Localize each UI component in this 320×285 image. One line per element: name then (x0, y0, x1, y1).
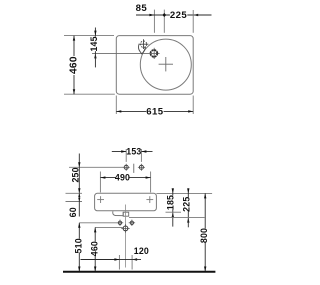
svg-text:85: 85 (136, 3, 148, 14)
svg-text:225: 225 (181, 197, 191, 212)
elevation: body top extension line (left) (66, 192, 83, 194)
plan view: bottom edge extension line (left) (64, 93, 115, 95)
svg-text:120: 120 (134, 246, 149, 256)
elevation: top surface reference line (right, long) (156, 192, 212, 194)
dimension 490 (elevation, between mounting crosses) (100, 172, 150, 193)
elevation: 460 top reference line (95, 226, 123, 228)
plan view: tap hole bold ring (151, 50, 158, 57)
dimension 460 (elevation bottom) (90, 227, 100, 271)
elevation: drain hole symbol (121, 224, 129, 232)
elevation: lower fixing hole right (129, 220, 135, 226)
dimension 185 (elevation right) (166, 188, 176, 226)
svg-text:225: 225 (170, 10, 187, 21)
plan view: basin bowl circle (140, 39, 191, 90)
elevation: 60 reference line (66, 201, 83, 203)
dimension 615 (plan bottom) (116, 96, 193, 118)
svg-text:185: 185 (166, 195, 176, 210)
plan view: tap hole centre line (145 reference) (92, 52, 160, 54)
svg-text:145: 145 (89, 36, 99, 51)
svg-text:615: 615 (146, 106, 163, 117)
elevation: 185 bottom reference line (166, 211, 182, 213)
elevation: washbasin body (95, 193, 157, 211)
svg-text:60: 60 (68, 207, 78, 217)
dimension 250 (elevation left) (70, 154, 80, 194)
plan view: basin center crosshair (159, 57, 173, 71)
elevation: lower fixing hole left (117, 220, 123, 226)
plan view: right edge extension line (top) (192, 10, 194, 33)
dimension 153 (elevation top) (112, 147, 153, 162)
plan view: top edge extension line (left) (64, 35, 114, 37)
svg-text:490: 490 (115, 173, 130, 183)
plan view: faucet symbol dashed circle with cross (138, 39, 148, 49)
svg-text:153: 153 (126, 147, 141, 157)
dimension 225 (plan top) (154, 10, 211, 33)
svg-text:460: 460 (69, 56, 80, 74)
plan view: faucet spout outline (139, 45, 146, 54)
elevation: left mounting cross (97, 196, 104, 203)
svg-text:800: 800 (199, 228, 209, 243)
dimension 120 (elevation bottom centre) (81, 246, 150, 269)
dimension 85 (plan top) (136, 3, 155, 33)
elevation: drain axis line (125, 205, 127, 268)
elevation: tap hole right (153 pair) (138, 164, 145, 171)
elevation: right mounting cross (146, 196, 153, 203)
dimension 60 (elevation left) (68, 193, 80, 217)
elevation: drain box (123, 212, 129, 216)
dimension 460 (plan left) (69, 36, 80, 95)
plan view: washbasin outline (116, 36, 193, 95)
dimension 225 (elevation right) (181, 188, 191, 227)
elevation: 510 top reference line (79, 222, 117, 224)
dimension 510 (elevation bottom left) (74, 223, 84, 272)
elevation: tap hole left (153 pair) (123, 164, 130, 171)
elevation: floor line (63, 271, 215, 273)
svg-text:510: 510 (74, 238, 84, 253)
elevation: 225 bottom reference line (129, 217, 205, 219)
elevation: tap holes reference line (250 top) (69, 166, 123, 168)
plan view: tap hole vertical tick (153, 48, 155, 59)
dimension 800 (elevation far right) (199, 193, 209, 271)
elevation: trap scoop outline (113, 211, 123, 215)
dimension 145 (plan left) (89, 28, 99, 68)
svg-text:460: 460 (90, 241, 100, 256)
elevation: centre mark between tap holes (133, 164, 135, 173)
svg-text:250: 250 (70, 167, 80, 182)
